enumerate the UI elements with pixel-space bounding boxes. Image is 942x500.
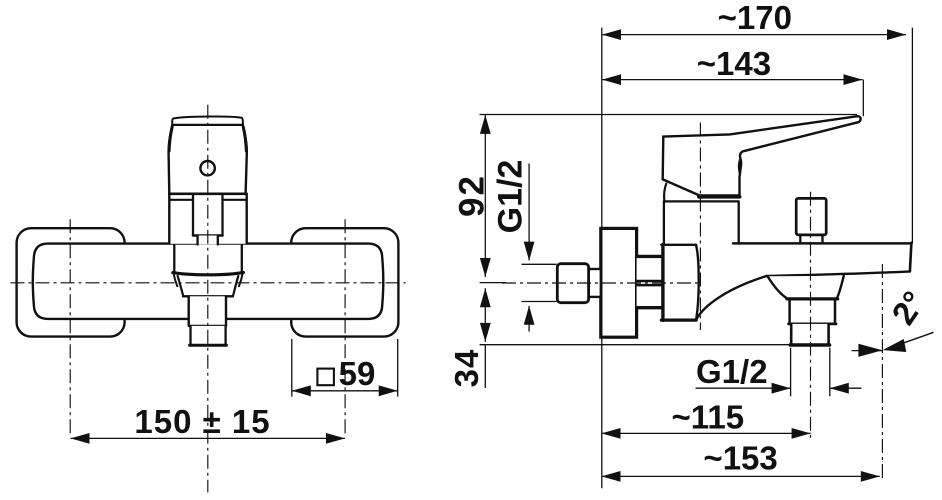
faucet body bar xyxy=(33,244,384,319)
sq59 ext lines xyxy=(292,339,398,397)
front horizontal axis xyxy=(11,282,406,284)
spout aerator xyxy=(190,326,227,345)
handle body (front) xyxy=(169,125,247,194)
spout body (side) xyxy=(696,243,911,319)
side valve axis xyxy=(699,123,701,331)
svg-text:~143: ~143 xyxy=(697,45,771,82)
dim line G12 outlet xyxy=(696,387,862,389)
ref stub center 92 xyxy=(480,282,506,284)
arrow 150 left xyxy=(71,433,90,444)
2deg leader tail xyxy=(852,350,883,352)
handle bottom edge xyxy=(169,193,246,196)
spout wavy top edge xyxy=(173,272,244,274)
arrow sq59 left xyxy=(292,385,311,396)
arrow 34 down xyxy=(480,323,491,342)
handle inner slant xyxy=(664,184,666,201)
arrow 92 down xyxy=(480,258,491,277)
dim line G12 inlet xyxy=(528,164,530,332)
square symbol of 59 xyxy=(317,369,334,386)
cartridge cover under handle xyxy=(169,196,246,244)
handle thick base xyxy=(699,195,740,199)
handle (side) xyxy=(663,116,861,195)
arrow G12out right xyxy=(772,383,791,394)
svg-text:G1/2: G1/2 xyxy=(492,160,530,234)
ref line top 92 xyxy=(480,114,858,116)
arrow 143 right xyxy=(844,74,863,85)
arrow G12in down xyxy=(524,242,535,261)
diverter knob xyxy=(796,198,826,235)
spout block sides xyxy=(174,245,242,273)
ext line right 143 xyxy=(862,80,864,117)
inlet fitting xyxy=(589,269,601,297)
lever underside curl xyxy=(738,159,740,176)
2deg arc xyxy=(886,332,934,349)
ext line right 170 xyxy=(911,28,913,244)
dim line 34 xyxy=(484,288,486,388)
front center axis xyxy=(207,105,209,493)
svg-text:92: 92 xyxy=(453,174,492,217)
dim line 143 xyxy=(602,79,863,81)
arrow 115 left xyxy=(602,428,621,439)
2 deg reference axis xyxy=(881,264,883,480)
svg-text:~153: ~153 xyxy=(703,440,777,477)
right wall plate xyxy=(291,228,398,336)
spout outlet thread xyxy=(791,324,828,346)
dim line 115 xyxy=(602,432,811,434)
right plate axis xyxy=(344,219,346,434)
arrow 2deg right xyxy=(883,339,907,352)
spout mid block xyxy=(189,296,226,326)
arrow sq59 right xyxy=(379,385,398,396)
handle side wedges xyxy=(169,127,246,151)
arrow 153 right xyxy=(861,471,880,482)
dim line 153 xyxy=(602,475,880,477)
arrow 153 left xyxy=(602,471,621,482)
arrow 2deg left xyxy=(858,344,882,357)
wall plate (side) xyxy=(601,228,637,337)
dim line sq59 xyxy=(292,390,398,392)
arrow 170 left xyxy=(602,29,621,40)
valve housing (side) xyxy=(664,201,739,246)
union connector xyxy=(637,256,662,307)
outlet ext lines xyxy=(791,348,830,397)
dim line 150 xyxy=(71,437,346,439)
spout skirt step xyxy=(183,295,233,297)
left wall plate xyxy=(17,228,125,336)
arrow 150 right xyxy=(326,433,345,444)
svg-text:59: 59 xyxy=(339,355,376,392)
outlet axis xyxy=(810,192,812,441)
stem foot xyxy=(198,236,218,245)
arrow 170 right xyxy=(887,29,906,40)
ext line wall left xyxy=(601,28,603,489)
spout skirt sides xyxy=(178,276,239,296)
handle cap (front) xyxy=(172,116,243,124)
arrow 92 up xyxy=(480,115,491,134)
arrow 143 left xyxy=(602,74,621,85)
svg-text:~115: ~115 xyxy=(672,398,745,435)
arrow G12in up xyxy=(524,306,535,325)
svg-text:34: 34 xyxy=(448,349,485,388)
svg-text:~170: ~170 xyxy=(718,0,792,36)
cover ring lines xyxy=(170,199,246,201)
spout funnel xyxy=(768,276,844,299)
arrow 34 up xyxy=(480,288,491,307)
arrow 115 right xyxy=(792,428,811,439)
valve stem xyxy=(193,196,223,236)
spout skirt ears xyxy=(174,273,243,286)
dim line 92 xyxy=(484,115,486,277)
svg-text:G1/2: G1/2 xyxy=(696,353,768,390)
cartridge block (side) xyxy=(663,245,697,320)
arrow G12out left xyxy=(830,383,849,394)
left plate axis xyxy=(69,219,71,434)
svg-text:150 ± 15: 150 ± 15 xyxy=(134,403,270,440)
spout outlet cylinder xyxy=(788,299,837,324)
inlet ext lines xyxy=(522,264,557,301)
dim line 170 xyxy=(602,34,906,36)
side horizontal axis xyxy=(502,282,698,284)
ref line bottom 34 xyxy=(480,344,792,346)
handle dot xyxy=(200,161,214,175)
